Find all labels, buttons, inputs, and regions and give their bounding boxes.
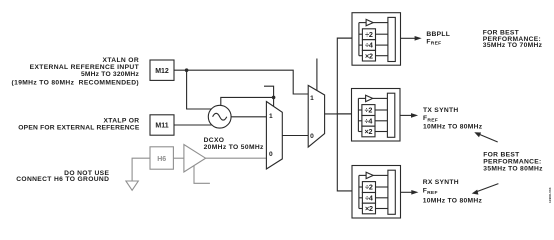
svg-text:÷4: ÷4 (365, 41, 373, 50)
svg-text:20MHz TO 50MHz: 20MHz TO 50MHz (204, 144, 264, 151)
svg-text:11968-004: 11968-004 (548, 187, 552, 203)
svg-text:5MHz TO 320MHz: 5MHz TO 320MHz (81, 71, 140, 78)
svg-text:÷2: ÷2 (365, 183, 373, 192)
svg-text:M12: M12 (155, 68, 169, 75)
svg-text:OPEN FOR EXTERNAL REFERENCE: OPEN FOR EXTERNAL REFERENCE (18, 124, 140, 131)
svg-text:×2: ×2 (365, 127, 373, 136)
svg-text:CONNECT H6 TO GROUND: CONNECT H6 TO GROUND (16, 176, 109, 183)
svg-text:PERFORMANCE:: PERFORMANCE: (483, 159, 541, 166)
svg-text:FREF: FREF (426, 38, 441, 46)
svg-text:10MHz TO 80MHz: 10MHz TO 80MHz (423, 198, 483, 205)
svg-text:M11: M11 (155, 123, 168, 130)
svg-text:BBPLL: BBPLL (426, 31, 450, 38)
svg-text:EXTERNAL REFERENCE INPUT: EXTERNAL REFERENCE INPUT (30, 64, 140, 71)
svg-text:×2: ×2 (365, 51, 373, 60)
svg-text:1: 1 (310, 95, 314, 102)
svg-text:0: 0 (310, 133, 314, 140)
svg-text:10MHz TO 80MHz: 10MHz TO 80MHz (423, 124, 483, 131)
svg-text:FREF: FREF (423, 188, 438, 196)
svg-text:35MHz TO 70MHz: 35MHz TO 70MHz (483, 42, 543, 49)
svg-text:H6: H6 (157, 156, 166, 163)
svg-text:RX SYNTH: RX SYNTH (423, 179, 459, 186)
svg-text:0: 0 (269, 151, 273, 158)
svg-text:÷2: ÷2 (365, 106, 373, 115)
svg-text:÷4: ÷4 (365, 116, 373, 125)
svg-text:35MHz TO 80MHz: 35MHz TO 80MHz (483, 166, 543, 173)
svg-text:(19MHz TO 80MHz RECOMMENDED): (19MHz TO 80MHz RECOMMENDED) (12, 79, 139, 86)
svg-text:FREF: FREF (423, 115, 438, 123)
svg-text:×2: ×2 (365, 204, 373, 213)
svg-text:TX SYNTH: TX SYNTH (423, 107, 458, 114)
svg-text:÷4: ÷4 (365, 193, 373, 202)
svg-text:÷2: ÷2 (365, 30, 373, 39)
svg-text:XTALN OR: XTALN OR (103, 57, 139, 64)
svg-text:1: 1 (269, 113, 273, 120)
